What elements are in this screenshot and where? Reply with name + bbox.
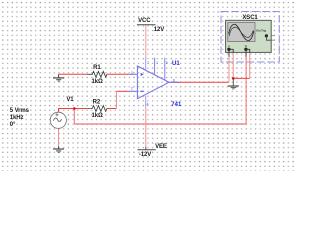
oscilloscope selection dashed box — [221, 12, 279, 63]
svg-text:7: 7 — [147, 61, 149, 65]
svg-text:VEE: VEE — [155, 144, 167, 150]
ground (below V1) — [53, 146, 64, 152]
resistor R1 1kOhm — [87, 65, 107, 85]
svg-text:5 Vrms: 5 Vrms — [10, 108, 30, 114]
wire B+ probe: junction down then bus to scope B — [73, 109, 75, 125]
svg-text:0°: 0° — [10, 122, 16, 128]
wire V1 bottom to ground — [58, 128, 60, 146]
svg-text:U1: U1 — [172, 61, 180, 67]
svg-text:5: 5 — [166, 61, 168, 65]
svg-text:1kΩ: 1kΩ — [92, 79, 103, 85]
svg-text:4: 4 — [147, 103, 149, 107]
screen — [228, 23, 255, 42]
svg-text:1kΩ: 1kΩ — [92, 113, 103, 119]
node junction at V1/R2 — [73, 107, 76, 110]
svg-text:6: 6 — [173, 79, 175, 83]
svg-text:1kHz: 1kHz — [10, 115, 24, 121]
pin 7 stub — [145, 58, 147, 71]
op-amp U1 741 — [129, 58, 182, 109]
ext trig terminal — [265, 34, 268, 37]
svg-text:1: 1 — [156, 61, 158, 65]
resistor R2 1kOhm — [87, 100, 107, 119]
pin 5 stub — [164, 58, 166, 81]
trace 2 — [229, 27, 253, 37]
trace 1 — [229, 24, 254, 40]
instrument body — [226, 20, 272, 52]
wire A- to ground junction — [232, 52, 234, 78]
svg-text:3: 3 — [131, 71, 133, 75]
wire output net: op-amp pin 6 to scope A — [170, 81, 229, 83]
wire pin 4 to VEE — [145, 107, 147, 146]
svg-text:-12V: -12V — [139, 152, 151, 158]
pin 6 output stub — [169, 81, 180, 83]
pin 2 stub (inverting, bottom) — [129, 90, 137, 92]
svg-text:VCC: VCC — [138, 18, 151, 24]
pin 1 stub — [154, 58, 156, 75]
svg-text:V1: V1 — [66, 97, 74, 103]
svg-text:12V: 12V — [154, 27, 164, 33]
wire ground junction to B- — [233, 77, 250, 79]
svg-text:Ext Trig: Ext Trig — [256, 29, 266, 33]
input - marker — [140, 91, 143, 92]
svg-text:R1: R1 — [93, 65, 101, 71]
oscilloscope XSC1 — [226, 15, 275, 57]
svg-text:2: 2 — [131, 87, 133, 91]
power VCC 12V — [137, 18, 164, 33]
ground (scope reference) — [228, 78, 239, 89]
ground (left of R1) — [53, 74, 64, 81]
source V1 5 Vrms 1kHz 0deg — [10, 97, 75, 129]
svg-text:R2: R2 — [93, 100, 101, 106]
pin 3 stub (non-inverting, top) — [129, 73, 137, 75]
power VEE -12V — [137, 144, 167, 158]
pin 4 stub — [145, 96, 147, 108]
svg-text:741: 741 — [171, 102, 182, 108]
node scope ground junction — [232, 77, 235, 80]
wire V1 net: V1 top to R2 to op-amp pin 2 — [59, 91, 130, 112]
wire R1 net: ground to op-amp pin 3 — [59, 73, 130, 75]
input + marker — [141, 73, 144, 76]
wire VCC to pin 7 — [145, 25, 147, 58]
